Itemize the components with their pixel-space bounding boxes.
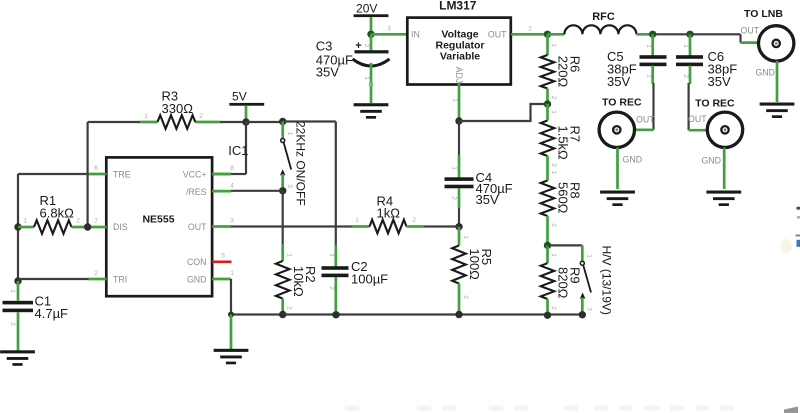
switch S1 22KHz ON/OFF: [280, 122, 293, 190]
svg-text:2: 2: [412, 217, 416, 224]
svg-text:2: 2: [451, 196, 458, 200]
svg-text:3: 3: [586, 307, 593, 311]
wire VCC+ from 5V node: [213, 122, 246, 174]
LM317 ADJ stub: [452, 83, 460, 121]
svg-text:2: 2: [76, 218, 80, 225]
svg-text:1: 1: [550, 43, 557, 47]
svg-text:LM317: LM317: [439, 0, 477, 13]
svg-text:1: 1: [682, 44, 689, 48]
svg-text:100Ω: 100Ω: [467, 249, 482, 281]
TO REC 2 OUT pin label: [688, 114, 707, 124]
LM317 title: [439, 0, 477, 13]
svg-text:1: 1: [550, 253, 557, 257]
svg-text:6: 6: [94, 165, 98, 172]
wire R8 junction to switch S2: [548, 244, 583, 246]
svg-text:35V: 35V: [607, 74, 630, 89]
svg-text:/RES: /RES: [186, 187, 207, 197]
LM317 OUT wire: [511, 33, 548, 36]
TO REC 1 label: [602, 97, 642, 109]
node C4/R4/R5 junction: [455, 223, 462, 230]
R6 labels: [556, 56, 583, 88]
switch S2 label: [600, 246, 614, 315]
node C5 junction: [649, 31, 656, 38]
R2 labels: [291, 266, 318, 297]
svg-text:VCC+: VCC+: [183, 170, 207, 180]
resistor R4 1kohm: [352, 217, 460, 233]
svg-text:1: 1: [9, 289, 16, 293]
R3 labels: [162, 89, 194, 116]
svg-text:1: 1: [286, 132, 293, 136]
svg-text:TO LNB: TO LNB: [744, 8, 783, 20]
svg-text:2: 2: [462, 295, 469, 299]
wire to LNB connector: [690, 34, 770, 42]
svg-text:H/V (13/19V): H/V (13/19V): [600, 246, 614, 315]
svg-text:1.5kΩ: 1.5kΩ: [556, 126, 571, 161]
IC1 reference label: [228, 143, 248, 158]
R8 labels: [556, 182, 583, 214]
svg-text:10kΩ: 10kΩ: [291, 266, 306, 297]
wire switch to R2: [282, 191, 284, 245]
node R8/R9/switch junction: [544, 242, 551, 249]
svg-text:1: 1: [550, 110, 557, 114]
svg-text:OUT: OUT: [741, 26, 760, 36]
svg-text:22KHz ON/OFF: 22KHz ON/OFF: [294, 121, 308, 206]
node R1 pin1 junction: [14, 223, 21, 230]
svg-text:GND: GND: [755, 68, 775, 78]
C2 value labels: [351, 259, 388, 286]
svg-text:6.8kΩ: 6.8kΩ: [40, 205, 75, 220]
NE555 right pin labels: [183, 170, 207, 285]
resistor R7 1.5kohm: [541, 104, 557, 181]
C1 value labels: [35, 294, 69, 321]
svg-text:330Ω: 330Ω: [162, 101, 194, 116]
wire TRI: [18, 278, 89, 280]
TO LNB label: [744, 8, 783, 20]
svg-text:OUT: OUT: [636, 115, 655, 125]
capacitor C6 38pF: [676, 34, 703, 84]
svg-text:DIS: DIS: [113, 222, 128, 232]
gray corner mark: [784, 407, 798, 413]
svg-text:2: 2: [94, 270, 98, 277]
wire ADJ to R6/R7 node (step): [459, 104, 548, 121]
NE555 left pin labels: [113, 170, 131, 285]
connector J1 TO LNB: [759, 26, 794, 61]
C5 value labels: [607, 49, 637, 89]
svg-text:1: 1: [451, 166, 458, 170]
node switch S1 top junction: [279, 118, 286, 125]
inductor RFC: [548, 25, 653, 34]
svg-text:35V: 35V: [476, 192, 499, 207]
capacitor C3 electrolytic 470uF 35V: [353, 34, 390, 103]
svg-text:20V: 20V: [356, 2, 377, 16]
node R5/rail junction: [455, 311, 462, 318]
svg-text:35V: 35V: [316, 65, 339, 80]
ground (LNB): [760, 103, 795, 119]
R7 labels: [556, 126, 583, 161]
wire C6 to REC2: [689, 83, 718, 130]
capacitor C4 470uF 35V: [445, 155, 474, 227]
svg-text:2: 2: [550, 223, 557, 227]
wire TRE net: [18, 174, 89, 281]
TO REC 1 GND label: [623, 155, 643, 165]
TO LNB GND stub: [776, 61, 779, 102]
svg-text:1: 1: [328, 253, 335, 257]
capacitor C1 4.7uF: [3, 301, 34, 351]
wire R3 to DIS: [86, 122, 88, 227]
power +5V supply symbol: [229, 90, 264, 123]
node R2/rail junction: [279, 311, 286, 318]
svg-text:2: 2: [363, 44, 370, 48]
resistor R3 330ohm: [88, 113, 246, 129]
ground (C3): [354, 103, 389, 119]
ground (C1): [0, 350, 35, 366]
node OUT/R6/RFC junction: [544, 31, 551, 38]
svg-text:TRI: TRI: [113, 275, 127, 285]
svg-text:Variable: Variable: [440, 51, 480, 63]
wire ADJ down to C4: [458, 121, 460, 156]
right edge clipped UI artifacts: [780, 207, 800, 253]
node GND rail corner: [228, 312, 234, 318]
svg-text:4: 4: [230, 182, 234, 189]
switch S2 H/V 13/19V: [580, 245, 593, 314]
svg-text:GND: GND: [187, 275, 207, 285]
faint clipped text row at bottom: [345, 406, 734, 411]
svg-text:2: 2: [328, 286, 335, 290]
R1 labels: [40, 193, 75, 220]
svg-text:2: 2: [528, 26, 532, 33]
pin number 2 (LM317 OUT): [528, 26, 532, 33]
svg-text:IC1: IC1: [228, 143, 248, 158]
svg-text:7: 7: [94, 218, 98, 225]
svg-text:1: 1: [355, 217, 359, 224]
svg-text:1kΩ: 1kΩ: [377, 205, 401, 220]
R9 labels: [556, 267, 583, 299]
voltage regulator IC LM317: [407, 18, 511, 85]
svg-text:2: 2: [9, 322, 16, 326]
resistor R8 560ohm: [541, 171, 557, 246]
svg-text:1: 1: [550, 171, 557, 175]
wire 5V rail to switch: [246, 121, 283, 123]
node DIS junction: [84, 223, 91, 230]
wire IN to LM317: [371, 33, 407, 36]
power +20V supply symbol: [354, 2, 389, 31]
svg-text:100µF: 100µF: [351, 272, 388, 287]
node switch S2/rail junction: [579, 311, 586, 318]
wire OUT of NE555: [231, 225, 352, 227]
node /RES junction: [279, 187, 286, 194]
connector J2 TO REC: [599, 112, 634, 147]
C4 value labels: [476, 170, 513, 207]
C6 value labels: [708, 49, 738, 89]
svg-text:OUT: OUT: [188, 222, 207, 232]
node ADJ junction: [455, 117, 462, 124]
svg-text:3: 3: [286, 184, 293, 188]
node TRI junction: [14, 277, 21, 284]
capacitor C2 100uF: [322, 245, 349, 315]
svg-text:CON: CON: [187, 257, 207, 267]
resistor R6 220ohm: [541, 34, 557, 104]
svg-text:820Ω: 820Ω: [556, 267, 571, 299]
svg-text:GND: GND: [623, 155, 643, 165]
ground (REC1): [600, 191, 635, 207]
LM317 body text: [435, 29, 484, 63]
wire rail C5-C6: [653, 33, 690, 35]
node C2/rail junction: [332, 311, 339, 318]
wire 5V rail to C2: [283, 122, 336, 246]
wire C5 to REC1: [620, 83, 654, 130]
C3 value labels: [316, 39, 353, 80]
svg-text:C3: C3: [316, 39, 333, 54]
CON pin red stub (unconnected): [212, 260, 232, 263]
resistor R2 10kohm: [276, 244, 293, 315]
svg-text:2: 2: [550, 306, 557, 310]
NE555 pin stubs: [89, 174, 232, 279]
capacitor C5 38pF: [640, 34, 667, 84]
svg-text:1: 1: [645, 44, 652, 48]
svg-text:1: 1: [144, 113, 148, 120]
svg-text:ADJ: ADJ: [454, 67, 464, 84]
resistor R1 6.8kohm: [18, 218, 88, 234]
svg-text:RFC: RFC: [592, 11, 615, 23]
svg-text:5: 5: [221, 253, 225, 260]
svg-text:1: 1: [462, 235, 469, 239]
TO REC 2 label: [695, 98, 735, 110]
RFC label: [592, 11, 615, 23]
connector J3 TO REC: [707, 112, 742, 147]
TO LNB GND label: [755, 68, 775, 78]
switch S1 label: [294, 121, 308, 206]
svg-text:IN: IN: [411, 29, 420, 39]
wire rail to ground symbol: [230, 315, 233, 350]
timer IC NE555 IC1: [106, 157, 212, 296]
TO REC 1 OUT pin label: [636, 115, 655, 125]
svg-text:560Ω: 560Ω: [556, 182, 571, 214]
TO LNB OUT pin label: [741, 26, 760, 36]
svg-text:2: 2: [645, 74, 652, 78]
svg-text:TO REC: TO REC: [695, 98, 735, 110]
ground (REC2): [706, 191, 741, 207]
svg-text:2: 2: [286, 306, 293, 310]
svg-text:4.7µF: 4.7µF: [35, 306, 69, 321]
svg-text:2: 2: [682, 74, 689, 78]
TO REC 2 GND stub: [723, 148, 726, 190]
svg-text:1: 1: [586, 254, 593, 258]
svg-text:1: 1: [23, 218, 27, 225]
svg-text:NE555: NE555: [142, 214, 174, 226]
svg-text:3: 3: [387, 26, 391, 33]
svg-text:35V: 35V: [708, 74, 731, 89]
node 5V/R3/VCC junction: [242, 118, 249, 125]
wire GND pin down: [230, 279, 232, 315]
svg-text:OUT: OUT: [688, 114, 707, 124]
node C6 junction: [686, 31, 693, 38]
R4 labels: [377, 193, 401, 220]
svg-text:5V: 5V: [232, 90, 247, 104]
svg-text:OUT: OUT: [488, 29, 507, 39]
svg-text:220Ω: 220Ω: [556, 56, 571, 88]
R5 labels: [467, 249, 494, 281]
NE555 pin numbers: [94, 165, 234, 277]
wire TRI to C1: [9, 281, 18, 301]
pin number 3 (LM317 IN): [387, 26, 391, 33]
svg-text:8: 8: [230, 165, 234, 172]
wire /RES: [213, 190, 283, 193]
resistor R5 100ohm: [452, 227, 469, 315]
svg-text:1: 1: [230, 270, 234, 277]
svg-text:2: 2: [550, 96, 557, 100]
svg-text:TO REC: TO REC: [602, 97, 642, 109]
TO REC 1 GND stub: [616, 148, 619, 190]
svg-text:GND: GND: [701, 156, 721, 166]
svg-text:2: 2: [550, 163, 557, 167]
TO REC 2 GND label: [701, 156, 721, 166]
node R9/rail junction: [544, 312, 551, 319]
bottom ground rail: [231, 313, 583, 315]
resistor R9 820ohm: [541, 245, 557, 315]
NE555 title: [142, 214, 174, 226]
svg-text:2: 2: [199, 113, 203, 120]
ground (NE555): [214, 349, 249, 365]
svg-text:1: 1: [452, 98, 459, 102]
node R6/R7/ADJ junction: [544, 100, 551, 107]
node 20V/C3/IN junction: [367, 31, 374, 38]
svg-text:1: 1: [286, 253, 293, 257]
svg-text:TRE: TRE: [113, 170, 131, 180]
svg-text:1: 1: [363, 76, 370, 80]
svg-text:3: 3: [230, 218, 234, 225]
LM317 pin labels: [411, 29, 507, 83]
